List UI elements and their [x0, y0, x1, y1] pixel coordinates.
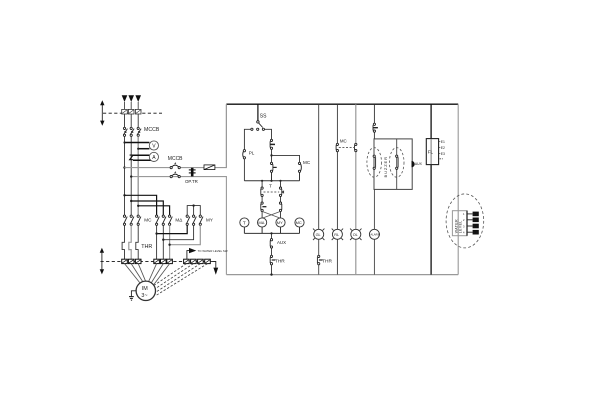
node star bridge [192, 204, 194, 206]
contactor MY pole 2 [193, 215, 197, 225]
terminal U1 [122, 259, 128, 263]
terminal block S top [128, 109, 134, 114]
wire lamp1 branch [318, 104, 320, 229]
box electrode holder [452, 211, 467, 236]
node MY link 1 [155, 232, 157, 234]
svg-text:LEVEL: LEVEL [458, 220, 462, 233]
contact buzzer left [373, 155, 376, 169]
node MY link 2 [162, 239, 164, 241]
node boundary double arrow bottom [100, 248, 104, 275]
transformer OP.TR [189, 168, 196, 177]
node tap MD feed 2 [130, 200, 132, 202]
node coil bus junctions [261, 180, 263, 182]
wire FL branch [430, 104, 432, 274]
contact THR lamp [317, 255, 322, 265]
svg-text:MCCB: MCCB [144, 127, 160, 133]
node tap MD feed 1 [123, 194, 125, 196]
node tap V2 [137, 148, 139, 150]
contactor MD pole 2 [162, 215, 166, 225]
node tap S control [130, 175, 132, 177]
terminal electrode E3 [473, 224, 479, 229]
terminal U2 [154, 259, 160, 263]
node thr bottom [270, 273, 272, 275]
contact THR control [270, 255, 275, 265]
wire SS drop [257, 104, 259, 121]
svg-text:MΔ: MΔ [258, 220, 264, 225]
wire phase R mid [124, 136, 126, 216]
contactor MC pole 1 [123, 215, 127, 225]
ellipse water tank [446, 194, 484, 248]
breaker MCCB control pole 1 [170, 163, 180, 169]
wire aux drop [271, 233, 273, 238]
svg-text:MC: MC [340, 138, 347, 143]
svg-text:T: T [269, 184, 272, 190]
svg-text:THR: THR [322, 258, 332, 264]
svg-text:MC: MC [303, 160, 311, 165]
svg-text:OL: OL [353, 233, 358, 237]
relay THR heater 2 [129, 225, 131, 259]
wire outgoing down lead [210, 261, 216, 267]
svg-text:MY: MY [277, 220, 283, 225]
node tap MD feed 3 [137, 205, 139, 207]
wire interlock cross [262, 211, 280, 218]
wire stop to junction [271, 149, 273, 162]
wire control feed bottom [131, 177, 226, 275]
transformer CT on phase S [130, 155, 134, 160]
wire buzzer branch [373, 104, 375, 139]
wire ammeter lead 2 [133, 159, 155, 161]
buzzer sounder [412, 161, 415, 167]
wire lamp2 branch [336, 104, 338, 274]
fuse F [204, 165, 215, 170]
wire MY link 1 [157, 225, 188, 233]
wire MD feed 1 [125, 195, 157, 216]
wire lamp1 to thr2 [318, 239, 320, 255]
node supply arrow T [135, 95, 141, 102]
wire SS right branch [265, 129, 272, 139]
svg-text:AUX: AUX [277, 240, 286, 245]
terminal V2 [161, 259, 167, 263]
contactor MD pole 3 [169, 215, 173, 225]
wire aux to thr [271, 248, 273, 255]
coil MY [276, 218, 285, 227]
label electrode E8 dash [440, 158, 443, 160]
svg-text:ALARM: ALARM [370, 233, 380, 237]
svg-text:E1: E1 [473, 213, 477, 217]
wire motor aux dashed lead 3 [155, 264, 200, 293]
wire phase T upper [137, 114, 139, 127]
ellipse buzzer right [389, 148, 404, 178]
svg-text:3~: 3~ [141, 293, 147, 299]
wire motor aux dashed lead 4 [155, 264, 207, 296]
terminal block T top [135, 109, 141, 114]
terminal electrode E1 [473, 212, 479, 217]
wire motor lead W1 [138, 264, 145, 282]
contact MC aux hold [298, 162, 301, 172]
bell alarm [369, 229, 379, 239]
relay THR heater 3 [136, 225, 138, 259]
wire phase R upper [124, 114, 126, 127]
wire motor lead U1 [125, 264, 141, 284]
wire motor boundary dashed line [101, 260, 218, 262]
meter V [149, 141, 158, 150]
pushbutton buzzer stop [373, 123, 378, 132]
svg-text:MC: MC [144, 218, 152, 223]
svg-text:GL: GL [316, 233, 321, 237]
wire phase S upper [130, 114, 132, 127]
wire electrode link 4 [467, 231, 473, 233]
wire MY link 3 [170, 225, 201, 244]
wire timer branch left [261, 181, 263, 218]
terminal aux 4 [205, 259, 211, 263]
svg-text:MΔ: MΔ [175, 218, 182, 223]
lamp OL [350, 229, 361, 240]
lamp GL [313, 229, 324, 240]
wire MY link 2 [163, 225, 193, 239]
wire MD drop 2 [162, 225, 164, 259]
svg-text:IM: IM [142, 286, 148, 292]
node outgoing down arrow [213, 268, 218, 275]
wire electrode link 1 [467, 213, 473, 215]
wire control bus top [226, 103, 458, 105]
contactor MC pole 2 [130, 215, 134, 225]
ground [129, 297, 134, 301]
contactor MC pole 3 [137, 215, 141, 225]
wire timer branch right [280, 181, 282, 218]
node start junction [270, 154, 272, 156]
breaker MCCB main pole 3 [137, 127, 141, 136]
wire electrode link 2 [467, 219, 473, 221]
wire voltmeter lead 2 [138, 148, 149, 150]
wire thr2 to bottom [318, 265, 320, 275]
node supply arrow S [128, 95, 134, 102]
contact MC lamp3 [355, 143, 357, 151]
svg-text:THR: THR [275, 258, 285, 264]
wire control bus bottom [226, 274, 458, 276]
wire incoming boundary dashed line [103, 112, 162, 114]
wire motor ground lead [131, 291, 136, 297]
wire control bus left upper [225, 104, 227, 167]
terminal electrode E8 [473, 230, 479, 235]
breaker MCCB control pole 2 [170, 172, 180, 178]
wire control bus right [457, 104, 459, 274]
wire motor aux dashed lead 2 [154, 264, 193, 290]
svg-text:E2: E2 [473, 218, 477, 222]
wire ammeter lead 1 [133, 154, 149, 156]
lamp RL [332, 229, 343, 240]
coil T [240, 218, 249, 227]
svg-text:OP.TR: OP.TR [185, 179, 198, 184]
node MY link 3 [168, 244, 170, 246]
wire MC dashed link [339, 147, 355, 149]
svg-text:THR: THR [141, 244, 152, 250]
wire lamp4 drop [373, 189, 375, 274]
wire remote arrow lead [187, 251, 189, 259]
wire thr to bottom [271, 265, 273, 275]
breaker MCCB main pole 1 [123, 127, 127, 136]
wire MY star bridge [187, 206, 200, 216]
terminal W1 [135, 259, 141, 263]
wire buzzer mid branch [396, 139, 398, 190]
switch SS selector [251, 121, 265, 131]
svg-text:FL: FL [428, 150, 434, 155]
terminal aux 3 [198, 259, 204, 263]
wire motor lead V1 [131, 264, 143, 282]
svg-text:MCCB: MCCB [168, 156, 183, 162]
POWER SECTION [100, 95, 227, 274]
svg-text:E3: E3 [441, 152, 445, 156]
box buzzer unit [374, 139, 412, 190]
wire MC aux branch [272, 155, 300, 162]
wire motor lead U2 [149, 264, 157, 282]
wire motor lead V2 [151, 264, 163, 283]
svg-text:PL: PL [249, 150, 255, 155]
pushbutton stop [270, 139, 275, 149]
terminal aux 1 [184, 259, 190, 263]
contact interlock left [261, 202, 267, 211]
contact timer T left [261, 187, 263, 196]
svg-text:E2: E2 [441, 146, 445, 150]
node supply arrow R [122, 95, 128, 102]
wire PL to bus [243, 159, 245, 181]
wire phase T mid [137, 136, 139, 216]
motor IM [136, 281, 155, 300]
svg-text:E8: E8 [473, 231, 477, 235]
contact buzzer right [396, 155, 399, 169]
svg-text:RL: RL [334, 233, 339, 237]
wire phase S mid [130, 136, 132, 216]
terminal V1 [128, 259, 134, 263]
contact PL [243, 150, 246, 159]
wire incoming phase stems [125, 102, 139, 109]
contactor MY pole 1 [186, 215, 190, 225]
wire MD feed 3 [138, 206, 169, 216]
terminal electrode E2 [473, 218, 479, 223]
wire coil bus bottom [244, 227, 299, 233]
wire lamp3 branch [355, 104, 357, 274]
label electrode E2 [439, 147, 440, 149]
svg-text:MY: MY [206, 218, 213, 223]
wire motor aux dashed lead 1 [153, 264, 187, 287]
wire MD drop 1 [156, 225, 158, 259]
wire electrode link 3 [467, 225, 473, 227]
contactor MD pole 1 [156, 215, 160, 225]
svg-text:SS: SS [260, 114, 267, 120]
node boundary double arrow top [100, 100, 104, 126]
svg-text:E3: E3 [473, 225, 477, 229]
svg-text:E1: E1 [441, 140, 445, 144]
relay FL box [426, 139, 438, 165]
contact timer T right [279, 187, 283, 196]
svg-text:TO WATER LEVEL SW.: TO WATER LEVEL SW. [198, 249, 229, 253]
ellipse buzzer left [367, 148, 382, 178]
contact interlock right [279, 202, 281, 211]
wire MD drop 3 [169, 225, 171, 259]
meter A [149, 152, 158, 161]
breaker MCCB main pole 2 [130, 127, 134, 136]
coil MD [258, 218, 267, 227]
label electrode E1 [439, 141, 440, 143]
svg-text:T: T [243, 220, 246, 225]
wire MD feed 2 [131, 201, 163, 216]
terminal aux 2 [191, 259, 197, 263]
terminal block R top [122, 109, 128, 114]
contactor MY pole 3 [199, 215, 203, 225]
wire coil bus top [244, 172, 299, 180]
node aux drop [270, 232, 272, 234]
wire control feed top [125, 104, 227, 167]
label electrode E3 [439, 153, 440, 155]
relay THR heater 1 [122, 225, 124, 259]
contact MC lamp2 [336, 143, 338, 151]
wire voltmeter lead 1 [125, 142, 150, 144]
wire SS left branch [244, 129, 250, 149]
svg-text:AUX: AUX [415, 162, 423, 166]
contact AUX [270, 239, 272, 249]
coil MC [295, 218, 304, 227]
node tap R control [123, 166, 125, 168]
svg-text:BUZZER: BUZZER [383, 156, 388, 177]
svg-text:MC: MC [296, 220, 302, 225]
wire timer dashed link [264, 191, 280, 193]
wire motor lead W2 [154, 264, 170, 285]
node remote arrow [189, 248, 196, 253]
terminal W2 [167, 259, 173, 263]
node tap V1 [123, 141, 125, 143]
pushbutton start [270, 162, 276, 172]
